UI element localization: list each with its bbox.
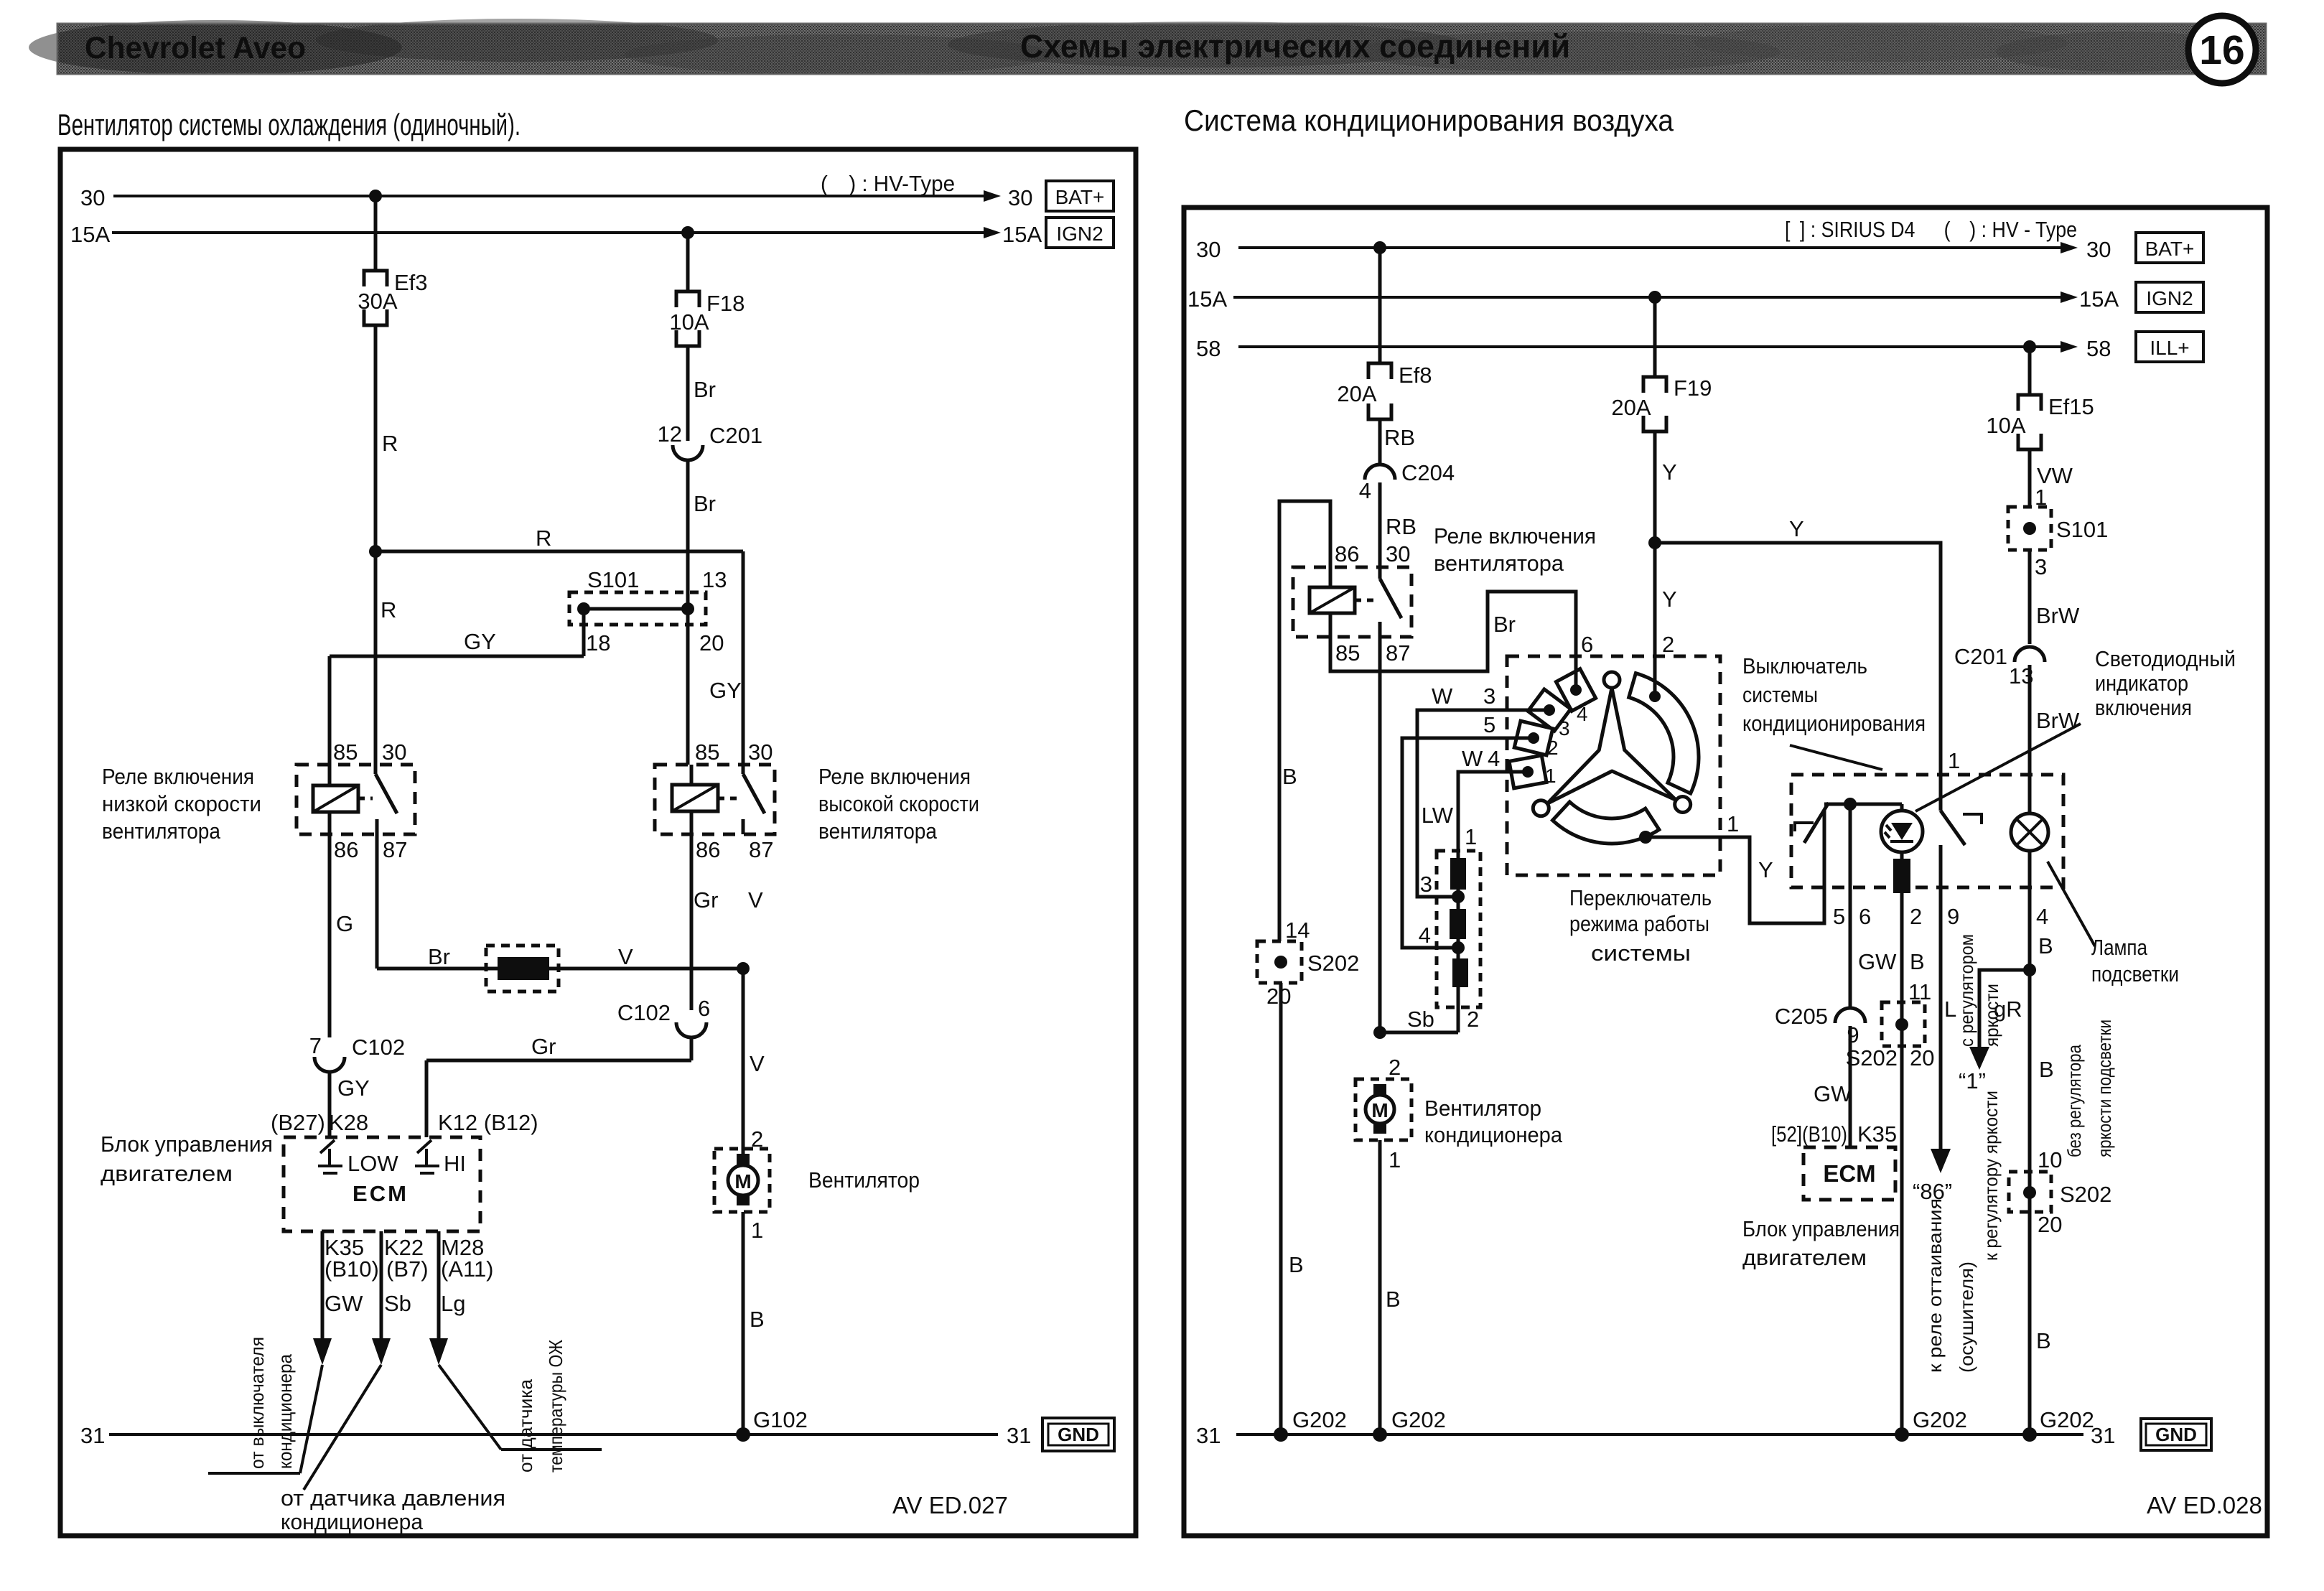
wire bus30 to fuse Ef3 <box>374 196 378 271</box>
relay K2 high speed box <box>655 765 775 834</box>
svg-text:31: 31 <box>2091 1423 2115 1448</box>
svg-text:3: 3 <box>1559 717 1570 739</box>
svg-text:BAT+: BAT+ <box>2145 238 2195 260</box>
svg-text:HI: HI <box>444 1151 466 1176</box>
svg-text:C204: C204 <box>1401 460 1455 485</box>
wire bus15A to fuse F19 <box>1653 297 1657 377</box>
terminal box GND <box>1042 1418 1114 1451</box>
svg-text:K28: K28 <box>329 1110 368 1135</box>
svg-text:20: 20 <box>1266 984 1291 1009</box>
wire Br relay pin85 to mode switch pin6 <box>1330 592 1576 673</box>
wire GW C205 to ECM K35 <box>1849 1026 1852 1147</box>
svg-text:S202: S202 <box>2060 1182 2111 1207</box>
wire Br C201 to S101 <box>686 460 690 609</box>
svg-text:высокой скорости: высокой скорости <box>818 791 979 816</box>
svg-text:30A: 30A <box>358 289 397 314</box>
wire bus15A to fuse F18 <box>686 233 690 291</box>
svg-text:Y: Y <box>1662 459 1677 485</box>
ECM engine control module (right) <box>1803 1147 1895 1200</box>
svg-text:6: 6 <box>698 996 710 1021</box>
svg-text:GY: GY <box>709 678 742 703</box>
bus line 30 <box>113 195 992 197</box>
A/C switch: LED series resistor <box>1893 859 1910 893</box>
svg-text:86: 86 <box>1335 541 1359 566</box>
relay K1 low speed box <box>297 765 415 834</box>
svg-text:3: 3 <box>1483 683 1495 709</box>
svg-text:10A: 10A <box>1986 413 2025 438</box>
svg-text:V: V <box>748 887 763 913</box>
svg-text:2: 2 <box>1910 904 1922 929</box>
svg-text:30: 30 <box>1008 185 1032 210</box>
svg-text:W: W <box>1432 683 1453 709</box>
svg-text:с регулятором: с регулятором <box>1956 934 1977 1047</box>
label relay K1 <box>102 764 261 844</box>
svg-text:системы: системы <box>1742 682 1818 707</box>
svg-text:15A: 15A <box>70 222 110 247</box>
label fan relay <box>1434 523 1596 576</box>
svg-text:Ef3: Ef3 <box>394 270 428 295</box>
svg-text:температуры ОЖ: температуры ОЖ <box>545 1340 566 1473</box>
svg-text:GW: GW <box>1814 1081 1852 1106</box>
svg-text:Ef8: Ef8 <box>1399 363 1432 388</box>
svg-text:G202: G202 <box>2040 1407 2094 1432</box>
svg-text:30: 30 <box>2086 237 2111 262</box>
svg-text:BAT+: BAT+ <box>1055 186 1105 208</box>
svg-text:87: 87 <box>749 837 773 862</box>
wire Gr to ECM K12 <box>690 1037 694 1060</box>
svg-text:16: 16 <box>2199 27 2244 73</box>
wire GY horizontal <box>330 655 584 658</box>
node Y split <box>1648 536 1661 549</box>
svg-text:1: 1 <box>751 1218 763 1243</box>
wire B S202 to ground <box>1279 983 1283 1434</box>
svg-text:Реле включения: Реле включения <box>102 764 254 789</box>
mode switch box <box>1507 656 1720 875</box>
mode switch pad 3 (wire 3) <box>1528 689 1571 731</box>
svg-text:Вентилятор: Вентилятор <box>1424 1096 1541 1121</box>
svg-text:RB: RB <box>1386 514 1417 539</box>
bus line 15A <box>1233 296 2069 299</box>
svg-text:1: 1 <box>1545 765 1557 787</box>
svg-text:Реле включения: Реле включения <box>1434 523 1596 549</box>
svg-text:вентилятора: вентилятора <box>102 818 221 844</box>
svg-text:14: 14 <box>1285 918 1310 943</box>
node Sb join <box>1373 1026 1386 1039</box>
svg-text:2: 2 <box>1389 1055 1401 1080</box>
right panel frame <box>1184 207 2267 1536</box>
svg-text:B: B <box>1386 1287 1401 1312</box>
svg-text:15A: 15A <box>1187 286 1227 312</box>
splice S101 (right) <box>2008 507 2051 550</box>
wire Y F19 down <box>1653 431 1657 696</box>
label ECM right <box>1742 1216 1900 1270</box>
label relay K2 <box>818 764 979 844</box>
svg-text:V: V <box>618 944 633 969</box>
svg-text:Y: Y <box>1758 857 1773 882</box>
wire GY C102 to ECM K28 <box>328 1072 332 1137</box>
svg-text:3: 3 <box>2035 554 2047 579</box>
wire GY down to relay K1 pin85 <box>328 656 332 765</box>
mode switch rotary: star knob <box>1533 672 1690 816</box>
resistor (low speed dropping) <box>486 946 559 992</box>
svg-text:RB: RB <box>1384 425 1415 450</box>
svg-text:G202: G202 <box>1391 1407 1446 1432</box>
splice S101 <box>569 592 706 625</box>
wire L A/C pin9 down with arrow <box>1939 887 1943 1149</box>
svg-text:кондиционера: кондиционера <box>274 1354 296 1469</box>
leader lines <box>300 1365 322 1473</box>
wire R down to relay K2 pin30 <box>742 551 745 765</box>
fuse F19 <box>1643 377 1666 431</box>
rotated note: от датчика температуры ОЖ <box>515 1340 566 1473</box>
connector C201 pin 13 <box>1954 644 2045 689</box>
svg-text:4: 4 <box>1577 703 1588 725</box>
svg-text:87: 87 <box>1386 640 1410 666</box>
svg-text:GY: GY <box>337 1076 370 1101</box>
svg-text:Блок управления: Блок управления <box>101 1132 273 1157</box>
leader A/C switch <box>1790 745 1882 770</box>
svg-text:от датчика: от датчика <box>515 1378 536 1473</box>
svg-text:6: 6 <box>1581 632 1593 657</box>
svg-text:15A: 15A <box>2079 286 2119 312</box>
mode switch pad 1 (wire 4) <box>1509 755 1546 788</box>
fuse Ef8 <box>1368 363 1391 419</box>
wire BrW S101 to C201 <box>2028 550 2032 644</box>
terminal box BAT+ <box>1046 181 1114 211</box>
svg-text:ECM: ECM <box>1823 1160 1875 1187</box>
svg-text:85: 85 <box>695 739 719 765</box>
svg-text:30: 30 <box>748 739 773 765</box>
terminal box GND right <box>2141 1419 2211 1450</box>
svg-text:R: R <box>536 526 551 551</box>
wire RB <box>1378 419 1382 463</box>
svg-text:Вентилятор: Вентилятор <box>808 1167 920 1193</box>
node on bus 15A <box>1648 291 1661 304</box>
splice S202 pins 11/20 <box>1882 1002 1925 1046</box>
svg-text:4: 4 <box>2036 904 2048 929</box>
svg-text:7: 7 <box>309 1033 322 1058</box>
svg-text:20: 20 <box>2038 1212 2062 1237</box>
wire stub into pad 6 <box>1574 668 1578 690</box>
wire BrW lamp feed: fuse Ef15 column <box>2028 347 2032 395</box>
svg-text:1: 1 <box>1465 824 1477 849</box>
splice S202 pins 10/20 <box>2009 1172 2051 1212</box>
bus line 58 <box>1238 345 2069 348</box>
svg-text:B: B <box>2038 933 2053 958</box>
svg-text:(B10): (B10) <box>325 1256 379 1282</box>
svg-text:5: 5 <box>1833 904 1845 929</box>
node lamp return split <box>2023 964 2036 976</box>
svg-text:30: 30 <box>382 739 406 765</box>
svg-text:G102: G102 <box>753 1407 808 1432</box>
svg-text:K12 (B12): K12 (B12) <box>438 1110 538 1135</box>
leader lamp <box>2048 862 2095 946</box>
svg-text:B: B <box>2039 1057 2054 1082</box>
A/C switch box <box>1791 775 2063 887</box>
wire V down to fan motor <box>742 969 745 1155</box>
svg-text:10: 10 <box>2038 1147 2062 1172</box>
svg-text:2: 2 <box>1662 632 1674 657</box>
svg-text:к реле оттаивания: к реле оттаивания <box>1924 1198 1946 1373</box>
blower resistor block <box>1437 851 1480 1032</box>
svg-text:V: V <box>750 1051 765 1076</box>
svg-text:4: 4 <box>1488 746 1500 771</box>
svg-text:1: 1 <box>1948 748 1960 773</box>
svg-text:20A: 20A <box>1611 395 1651 420</box>
ECM engine control module <box>284 1137 480 1231</box>
svg-text:двигателем: двигателем <box>1742 1245 1867 1270</box>
fuse F18 <box>676 291 699 346</box>
connector C204 pin 4 <box>1359 460 1455 503</box>
a/c fan motor M <box>1355 1079 1411 1140</box>
wire BrW C201 to lamp <box>2028 665 2032 813</box>
svg-text:11: 11 <box>1908 979 1931 1004</box>
svg-text:S101: S101 <box>2056 517 2108 542</box>
svg-text:3: 3 <box>1420 872 1432 897</box>
wire to brightness regulator with arrow <box>1979 970 2030 1047</box>
svg-text:вентилятора: вентилятора <box>1434 551 1564 576</box>
svg-text:BrW: BrW <box>2036 603 2080 628</box>
svg-text:( ) : HV-Type: ( ) : HV-Type <box>821 171 955 196</box>
svg-text:Br: Br <box>428 944 450 969</box>
wire W pad1 to resistor pin1 <box>1458 772 1528 851</box>
svg-text:30: 30 <box>1386 541 1410 566</box>
svg-text:20: 20 <box>699 630 724 655</box>
svg-text:включения: включения <box>2095 695 2192 720</box>
svg-text:30: 30 <box>80 185 105 210</box>
label LED indicator <box>2095 646 2236 720</box>
svg-text:(A11): (A11) <box>441 1256 494 1282</box>
svg-text:31: 31 <box>80 1423 105 1448</box>
connector C102 pin 7 <box>309 1033 405 1072</box>
wire GW A/C pin6 down <box>1849 804 1852 1007</box>
svg-text:яркости подсветки: яркости подсветки <box>2094 1020 2115 1157</box>
node on bus 58 <box>2023 340 2036 353</box>
svg-text:F18: F18 <box>706 291 745 316</box>
svg-text:Chevrolet Aveo: Chevrolet Aveo <box>85 31 306 65</box>
svg-text:B: B <box>1910 949 1925 974</box>
svg-text:M: M <box>734 1170 751 1193</box>
svg-text:ECM: ECM <box>353 1181 409 1206</box>
label ECM <box>101 1132 273 1186</box>
bus line 15A <box>112 231 992 234</box>
svg-text:W: W <box>1462 746 1483 771</box>
label lamp <box>2091 935 2179 986</box>
svg-text:13: 13 <box>702 567 727 592</box>
node V join <box>737 962 750 975</box>
svg-text:Y: Y <box>1662 587 1677 612</box>
wire G relay K1 pin86 down <box>328 834 332 1037</box>
svg-text:C201: C201 <box>709 423 762 448</box>
svg-text:K35: K35 <box>1857 1121 1897 1147</box>
mode switch rotary: right arc <box>1629 673 1699 793</box>
connector C205 pin 9 <box>1775 1004 1865 1048</box>
svg-text:85: 85 <box>333 739 358 765</box>
wire Sb from resistor <box>1380 1031 1458 1035</box>
wire B A/C pin2 down <box>1900 893 1904 1434</box>
svg-text:Выключатель: Выключатель <box>1742 653 1867 678</box>
svg-text:низкой скорости: низкой скорости <box>102 791 261 816</box>
wire LW pad2 to resistor pin4 <box>1402 738 1534 948</box>
svg-text:Sb: Sb <box>1407 1007 1434 1032</box>
rotated note: от выключателя кондиционера <box>246 1337 296 1469</box>
rotated note: без регулятора яркости подсветки <box>2063 1020 2115 1157</box>
ECM output wires K35 K22 M28 <box>321 1231 325 1338</box>
wire 2 into right arc <box>1649 691 1661 702</box>
svg-text:кондиционера: кондиционера <box>281 1509 424 1534</box>
svg-text:индикатор: индикатор <box>2095 671 2188 696</box>
svg-text:Gr: Gr <box>694 887 718 913</box>
wire GY S101 pin20 down to relay K2 pin85 <box>686 609 690 765</box>
svg-text:C102: C102 <box>352 1035 405 1060</box>
svg-text:G202: G202 <box>1292 1407 1347 1432</box>
svg-text:4: 4 <box>1359 478 1371 503</box>
svg-text:Реле включения: Реле включения <box>818 764 971 789</box>
svg-text:15A: 15A <box>1002 222 1042 247</box>
svg-text:S202: S202 <box>1846 1045 1898 1070</box>
svg-text:вентилятора: вентилятора <box>818 818 938 844</box>
svg-text:20A: 20A <box>1337 381 1376 406</box>
svg-text:S202: S202 <box>1307 951 1359 976</box>
wire Gr relay K2 pin86 down <box>690 834 694 1010</box>
svg-text:1: 1 <box>1727 811 1739 836</box>
svg-text:4: 4 <box>1419 923 1431 948</box>
svg-text:C102: C102 <box>617 1000 671 1025</box>
svg-text:B: B <box>1282 764 1297 789</box>
wire stub into right arc pad 2 <box>1653 671 1657 696</box>
rotated note: с регулятором яркости <box>1956 934 2002 1047</box>
svg-text:(B27): (B27) <box>271 1110 325 1135</box>
svg-text:IGN2: IGN2 <box>1056 223 1103 245</box>
label mode switch <box>1569 885 1712 966</box>
svg-text:[ ] : SIRIUS D4 ( ) : HV -: [ ] : SIRIUS D4 ( ) : HV - Type <box>1785 217 2077 242</box>
svg-text:12: 12 <box>658 421 682 447</box>
wire VW <box>2028 449 2032 507</box>
wire bus30 to fuse Ef8 <box>1378 248 1382 363</box>
svg-text:2: 2 <box>1547 737 1559 759</box>
arrow to coolant temp sensor <box>429 1338 448 1365</box>
svg-text:LOW: LOW <box>347 1151 398 1176</box>
wire R from Ef3 down to relay K1 pin30 <box>374 325 378 765</box>
svg-text:GND: GND <box>1058 1424 1099 1445</box>
svg-text:B: B <box>2036 1328 2051 1353</box>
svg-text:ILL+: ILL+ <box>2150 337 2189 359</box>
mode switch pad 2 (wire 5) <box>1514 721 1553 755</box>
svg-text:к регулятору яркости: к регулятору яркости <box>1980 1091 2002 1261</box>
svg-text:Br: Br <box>1493 612 1516 637</box>
svg-text:85: 85 <box>1335 640 1360 666</box>
fuse Ef3 <box>364 271 387 325</box>
svg-text:Ef15: Ef15 <box>2048 394 2094 419</box>
svg-text:87: 87 <box>383 837 407 862</box>
left panel frame <box>60 149 1136 1536</box>
svg-text:31: 31 <box>1196 1423 1221 1448</box>
svg-text:M: M <box>1371 1099 1388 1121</box>
mode switch pad 4 (wire 6) <box>1556 669 1595 711</box>
svg-text:18: 18 <box>586 630 610 655</box>
svg-text:R: R <box>382 431 398 456</box>
wire Br relay K1 pin87 down <box>375 834 379 969</box>
svg-text:L: L <box>1944 997 1956 1022</box>
svg-text:Светодиодный: Светодиодный <box>2095 646 2236 671</box>
svg-text:без регулятора: без регулятора <box>2063 1045 2085 1157</box>
ground nodes right <box>1274 1427 1288 1442</box>
svg-text:5: 5 <box>1483 712 1495 737</box>
svg-text:C201: C201 <box>1954 644 2007 669</box>
svg-text:BrW: BrW <box>2036 708 2080 733</box>
svg-text:10A: 10A <box>669 309 709 335</box>
svg-text:LW: LW <box>1422 803 1454 828</box>
svg-text:двигателем: двигателем <box>101 1161 233 1186</box>
terminal box IGN2 <box>2136 282 2203 312</box>
svg-text:58: 58 <box>1196 336 1221 361</box>
svg-text:6: 6 <box>1859 904 1871 929</box>
wire B motor to ground <box>1378 1140 1382 1434</box>
svg-text:[52](B10): [52](B10) <box>1771 1121 1847 1147</box>
svg-text:Схемы электрических соединений: Схемы электрических соединений <box>1020 28 1570 65</box>
A/C switch: LED indicator <box>1881 804 1923 859</box>
svg-text:Y: Y <box>1789 516 1804 541</box>
svg-text:Lg: Lg <box>441 1291 465 1316</box>
svg-text:Переключатель: Переключатель <box>1569 885 1712 910</box>
svg-text:системы: системы <box>1591 941 1691 966</box>
svg-text:Br: Br <box>694 377 716 402</box>
wire Y to A/C switch pin1 <box>1655 543 1941 811</box>
wire Y mode pad1 to A/C pin5 <box>1646 837 1824 923</box>
svg-text:GW: GW <box>1858 949 1897 974</box>
svg-text:Вентилятор системы охлаждения: Вентилятор системы охлаждения (одиночный… <box>57 108 521 141</box>
label a/c fan <box>1424 1096 1563 1147</box>
wire R horizontal to relay K2 <box>375 550 743 554</box>
svg-text:58: 58 <box>2086 336 2111 361</box>
arrow to A/C pressure sensor <box>372 1338 391 1365</box>
svg-text:B: B <box>1289 1252 1304 1277</box>
ground node G102 <box>736 1427 750 1442</box>
node on bus 30 <box>1373 241 1386 254</box>
svg-text:Br: Br <box>694 491 716 516</box>
A/C switch: switch blade 1 <box>1795 803 1829 887</box>
fan relay box <box>1293 567 1411 637</box>
fuse Ef15 <box>2018 395 2041 449</box>
svg-text:B: B <box>750 1307 765 1332</box>
svg-text:кондиционирования: кондиционирования <box>1742 711 1926 736</box>
node on bus 30 <box>369 190 382 202</box>
svg-text:Лампа: Лампа <box>2091 935 2148 960</box>
svg-text:R: R <box>381 597 396 622</box>
svg-text:Sb: Sb <box>384 1291 411 1316</box>
splice S202 pin14 <box>1257 941 1302 983</box>
leader LED <box>1915 724 2081 811</box>
lamp (illumination bulb) <box>2011 813 2048 851</box>
fan motor M <box>714 1149 770 1212</box>
svg-text:30: 30 <box>1196 237 1221 262</box>
mode switch rotary: bottom arc <box>1553 802 1659 844</box>
svg-text:(осушителя): (осушителя) <box>1956 1261 1977 1373</box>
svg-text:2: 2 <box>1467 1007 1479 1032</box>
svg-text:GW: GW <box>325 1291 363 1316</box>
svg-text:9: 9 <box>1947 904 1959 929</box>
node on bus 15A <box>681 226 694 239</box>
svg-text:1: 1 <box>1389 1147 1401 1172</box>
svg-text:Gr: Gr <box>531 1034 556 1059</box>
svg-text:G202: G202 <box>1913 1407 1967 1432</box>
svg-text:C205: C205 <box>1775 1004 1828 1029</box>
svg-text:GY: GY <box>464 629 496 654</box>
terminal box BAT+ <box>2136 233 2203 263</box>
svg-text:AV ED.028: AV ED.028 <box>2147 1492 2262 1518</box>
rotated note: к реле оттаивания (осушителя) <box>1924 1198 1977 1373</box>
svg-text:“1”: “1” <box>1959 1068 1986 1093</box>
